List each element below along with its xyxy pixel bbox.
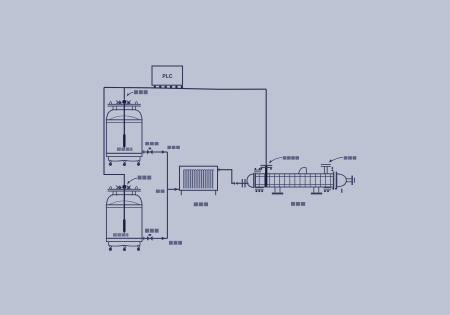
valve V3 (heat exchanger inlet) [234,182,238,186]
PLC controller box [152,66,183,85]
pipe: tank1 outlet [142,150,167,154]
label: heat exchanger [291,202,305,206]
heat exchanger HX1 [247,165,354,195]
inlet flange [241,179,243,187]
HX bottom-right flange [324,188,342,193]
tank2 casters [109,246,140,251]
tank2 body [106,205,142,239]
pipe: branch to vaporizer [167,188,179,190]
label: tank1 name [117,148,132,151]
flow arrow on tank2 outlet [162,237,166,240]
tank1 level probe [123,104,125,135]
HX right nozzle [346,178,351,180]
tank T1 (storage tank 1) [106,100,142,166]
HX baffles [259,174,330,187]
label: check valve 2 [169,241,182,245]
tank1 casters [109,161,140,166]
tank2 base skirt [108,242,140,246]
signal wire: main horizontal bus [104,87,266,89]
signal wire: drop to tank1 level gauge [123,87,125,99]
label: check valve 1 [167,146,179,149]
tank1 dome [106,110,142,120]
tank1 platform [108,104,141,106]
HX right head [337,174,347,187]
temperature probe TE [265,165,267,186]
tank2 platform legs [113,191,136,196]
label: level gauge 1 (tank1) with leader arrow [127,90,148,96]
pipe: vaporizer to heat exchanger [218,170,235,184]
label: vent with leader arrow [329,156,357,163]
HX left tube sheet [253,173,255,188]
pipe: common header vertical [166,152,168,238]
flow arrow on tank1 outlet [162,150,166,153]
tank1 body [106,120,142,154]
label: solenoid valve 1 [145,142,158,145]
flow arrow to vaporizer [175,188,179,191]
solenoid valve V1 [147,148,153,155]
HX bottom-left flange [255,188,264,192]
vaporizer E1 [180,166,218,195]
HX top hump [299,168,307,174]
tank1 base skirt [108,157,140,161]
svg-text:PLC: PLC [162,74,172,80]
signal wire: right drop to temperature probe [265,89,267,165]
signal wire: left drop to tank2 level gauge [104,87,124,187]
HX right tube sheet [333,172,335,189]
label: tank2 name [113,233,128,236]
tank2 dome [106,195,142,205]
solenoid valve V2 [147,234,153,241]
vent nozzle [321,165,334,174]
label: temperature probe with leader arrow [269,156,299,164]
tank1 bottom rim band [106,153,142,156]
label: level gauge 2 (tank2) with leader arrow [127,176,151,185]
tank2 bottom rim band [106,238,142,241]
HX shell [255,174,333,187]
pipe stub to inlet flange [238,182,249,184]
tank1 platform legs [113,106,136,111]
tank1 top valves [110,100,137,104]
tank2 platform [108,189,141,191]
HX saddle support 1 [272,187,283,194]
pipe: tank2 outlet [142,237,167,239]
HX top-left flanged nozzle [254,168,261,172]
tank2 top valves [110,185,137,189]
label: throttle [156,190,165,193]
tank T2 (storage tank 2) [106,185,142,251]
label: solenoid valve 2 [145,229,159,233]
PLC terminal dots [154,86,183,88]
HX left head [247,174,254,188]
label: vaporizer [194,202,208,206]
tank2 level probe [123,189,125,220]
HX saddle support 2 [311,187,322,194]
